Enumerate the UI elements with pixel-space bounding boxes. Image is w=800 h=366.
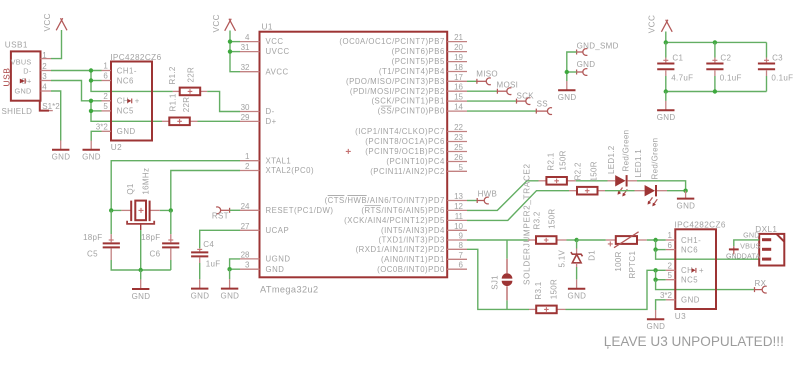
svg-text:(PCINT6)PB6: (PCINT6)PB6 — [392, 47, 445, 56]
svg-text:GND: GND — [681, 296, 700, 305]
svg-text:22R: 22R — [187, 67, 196, 83]
svg-text:USB1: USB1 — [5, 41, 28, 50]
wire GND_SMD tie — [567, 52, 577, 81]
svg-text:2: 2 — [42, 62, 47, 71]
capacitor C6 18pF — [141, 233, 179, 260]
svg-text:C2: C2 — [720, 54, 731, 63]
svg-text:2: 2 — [245, 162, 250, 171]
wire USB GND — [51, 91, 61, 141]
svg-text:18: 18 — [454, 63, 463, 72]
wire pin2-pin5 tie — [655, 270, 657, 279]
svg-text:150R: 150R — [559, 150, 568, 170]
ground GND (D1) — [568, 279, 587, 300]
svg-text:S1*2: S1*2 — [42, 102, 60, 111]
svg-text:Red/Green: Red/Green — [651, 138, 660, 180]
svg-text:D1: D1 — [587, 250, 596, 261]
svg-text:32: 32 — [241, 63, 250, 72]
svg-text:XTAL1: XTAL1 — [266, 156, 292, 165]
svg-text:3*2: 3*2 — [660, 291, 673, 300]
svg-text:(PCINT9/OC1B)PC5: (PCINT9/OC1B)PC5 — [365, 147, 445, 156]
svg-text:R3.2: R3.2 — [533, 211, 542, 229]
wire C6 branch — [170, 210, 172, 234]
junction D- pin1 — [89, 68, 93, 72]
svg-text:C4: C4 — [203, 240, 214, 249]
net stub RX — [755, 279, 767, 293]
resistor R2.1 150R — [539, 150, 576, 184]
junction LED gnd — [683, 189, 687, 193]
svg-text:+: + — [135, 97, 140, 106]
svg-text:GND: GND — [677, 202, 696, 211]
net stub GND_SMD — [577, 41, 619, 55]
wire PD5 to R2.2 — [467, 191, 569, 221]
junction UGND gnd — [227, 267, 231, 271]
svg-text:13: 13 — [454, 192, 463, 201]
svg-text:GND: GND — [647, 322, 666, 331]
ground GND (gnd_smd) — [558, 81, 577, 102]
svg-text:18pF: 18pF — [141, 233, 160, 242]
wire crystal right — [160, 201, 171, 211]
svg-text:4.7uF: 4.7uF — [671, 74, 693, 83]
wire C5 to gnd bus — [111, 260, 171, 270]
svg-text:CH1-: CH1- — [681, 236, 701, 245]
svg-text:Q1: Q1 — [126, 183, 135, 195]
wire D- (USB to U2 pin1 and R1.2) — [51, 70, 102, 72]
svg-text:(SS/PCINT0)PB0: (SS/PCINT0)PB0 — [378, 107, 445, 116]
svg-text:20: 20 — [454, 43, 463, 52]
wire PD2 to R3.1 — [467, 249, 529, 309]
svg-text:SOLDERJUMPER2_TRACE2: SOLDERJUMPER2_TRACE2 — [522, 163, 531, 285]
wire DATA across U3 to DXL1 — [656, 250, 760, 260]
svg-text:16MHz: 16MHz — [141, 168, 150, 195]
svg-text:U3: U3 — [675, 312, 686, 321]
svg-text:LED1.2: LED1.2 — [607, 145, 616, 174]
svg-text:21: 21 — [454, 33, 463, 42]
wire LED1.1 to gnd — [667, 190, 686, 192]
wire DXL1 gnd — [734, 240, 759, 246]
junction C1 bottom — [664, 89, 668, 93]
svg-text:CH: CH — [681, 266, 693, 275]
ground GND (LEDs) — [677, 191, 696, 211]
junction crystal right — [169, 208, 173, 212]
svg-text:5.1V: 5.1V — [558, 249, 567, 267]
svg-text:(PDO/MISO/PCINT3)PB3: (PDO/MISO/PCINT3)PB3 — [346, 77, 445, 86]
junction D+ pin2 — [89, 99, 93, 103]
junction U3 pin2 — [653, 268, 657, 272]
wire D1 branch — [576, 240, 578, 249]
junction D+ pin5 — [89, 109, 93, 113]
svg-text:14: 14 — [454, 103, 463, 112]
svg-text:(XCK/AIN4/PCINT12)PD5: (XCK/AIN4/PCINT12)PD5 — [344, 216, 445, 225]
svg-text:CH: CH — [117, 97, 129, 106]
svg-text:RESET(PC1/DW): RESET(PC1/DW) — [266, 206, 334, 215]
svg-text:GND: GND — [743, 231, 760, 240]
LED LED1.1 Red/Green — [634, 138, 667, 207]
svg-text:GND: GND — [191, 292, 210, 301]
wire R2.1 to LED1.2 — [576, 180, 608, 182]
svg-text:RPTC1: RPTC1 — [628, 251, 637, 279]
svg-text:(RTS/INT6/AIN5)PD6: (RTS/INT6/AIN5)PD6 — [361, 206, 444, 215]
svg-text:(PDI/MOSI/PCINT2)PB2: (PDI/MOSI/PCINT2)PB2 — [350, 87, 445, 96]
wire RX across U3 — [656, 280, 755, 290]
svg-text:VCC: VCC — [266, 37, 284, 46]
junction gnd tie — [565, 70, 569, 74]
svg-text:6: 6 — [668, 241, 673, 250]
solder jumper SJ1 — [490, 240, 512, 309]
PTC resistor RPTC1 100R — [606, 232, 647, 279]
connector USB1 — [2, 41, 61, 117]
svg-text:C6: C6 — [150, 250, 161, 259]
svg-text:4: 4 — [42, 83, 47, 92]
svg-text:VCC: VCC — [648, 15, 657, 34]
wire D1 to gnd — [576, 267, 578, 279]
ground GND (crystal) — [132, 280, 151, 301]
svg-text:100R: 100R — [614, 251, 623, 271]
svg-text:Red/Green: Red/Green — [621, 130, 630, 172]
svg-text:(PCINT8/OC1A)PC6: (PCINT8/OC1A)PC6 — [365, 137, 445, 146]
svg-text:10: 10 — [454, 222, 463, 231]
svg-text:XTAL2(PC0): XTAL2(PC0) — [266, 166, 315, 175]
svg-text:22R: 22R — [182, 97, 191, 113]
supply VCC (caps) — [648, 15, 673, 34]
wire UCAP to C4 — [200, 230, 240, 248]
svg-text:27: 27 — [241, 222, 250, 231]
svg-text:DATA: DATA — [742, 251, 761, 260]
svg-text:GND: GND — [15, 86, 32, 95]
ground GND (DXL1) — [726, 246, 742, 260]
svg-text:(TXD1/INT3)PD3: (TXD1/INT3)PD3 — [378, 236, 444, 245]
svg-text:17: 17 — [454, 73, 463, 82]
svg-text:C3: C3 — [772, 54, 783, 63]
svg-text:SCK: SCK — [517, 91, 535, 100]
svg-text:UGND: UGND — [266, 255, 291, 264]
svg-text:U1: U1 — [262, 23, 273, 32]
junction crystal left — [109, 208, 113, 212]
wire gnd bus down — [140, 270, 142, 280]
wire R3.1 to U3 pin2/5 — [566, 270, 666, 309]
svg-text:0.1uF: 0.1uF — [771, 74, 793, 83]
wire PD3 to R3.2 — [467, 239, 528, 241]
wire RPTC1 to U3 pin1 — [647, 239, 666, 241]
svg-text:HWB: HWB — [478, 190, 498, 199]
svg-text:GND: GND — [577, 60, 596, 69]
connector DXL1 — [740, 225, 784, 266]
svg-text:22: 22 — [454, 123, 463, 132]
svg-text:SJ1: SJ1 — [490, 275, 499, 290]
svg-text:GND: GND — [82, 153, 101, 162]
ground GND (U2) — [82, 140, 101, 161]
svg-text:ĻEAVE U3 UNPOPULATED!!!: ĻEAVE U3 UNPOPULATED!!! — [604, 334, 784, 349]
wire to gnd — [229, 269, 231, 279]
svg-text:D-: D- — [266, 107, 275, 116]
junction C1 top — [664, 40, 668, 44]
svg-text:(PCINT10)PC4: (PCINT10)PC4 — [386, 157, 445, 166]
junction D- pin6 — [89, 78, 93, 82]
svg-text:9: 9 — [459, 232, 464, 241]
capacitor C4 1uF — [191, 240, 220, 269]
junction U3 pin5 — [653, 278, 657, 282]
svg-text:NC6: NC6 — [117, 76, 134, 85]
wire C4 to gnd — [199, 263, 201, 279]
svg-text:24: 24 — [241, 202, 250, 211]
wire R3.2 to D1 junction — [567, 239, 577, 241]
junction VCC pin4 — [228, 39, 232, 43]
svg-text:RST: RST — [212, 211, 229, 220]
svg-text:GND: GND — [568, 292, 587, 301]
svg-text:29: 29 — [241, 113, 250, 122]
svg-text:GND: GND — [266, 265, 285, 274]
svg-text:1: 1 — [245, 152, 250, 161]
net stub MISO — [476, 69, 498, 84]
ground GND (USB) — [52, 140, 71, 161]
svg-text:UVCC: UVCC — [266, 47, 290, 56]
net stub RST — [212, 207, 230, 221]
svg-text:MOSI: MOSI — [497, 80, 519, 89]
svg-text:GND: GND — [657, 113, 676, 122]
wire pin1-pin6 tie — [655, 240, 657, 250]
svg-text:C1: C1 — [672, 54, 683, 63]
wire R1.1 to U1 D+ — [198, 120, 241, 122]
svg-text:0.1uF: 0.1uF — [720, 74, 742, 83]
svg-text:150R: 150R — [548, 209, 557, 229]
capacitor C3 0.1uF — [758, 42, 793, 91]
svg-text:(PCINT5)PB5: (PCINT5)PB5 — [392, 57, 445, 66]
svg-text:(AIN0/INT1)PD1: (AIN0/INT1)PD1 — [381, 255, 445, 264]
svg-text:VBUS: VBUS — [11, 58, 32, 67]
wire SS — [467, 110, 536, 112]
wire to RPTC1 — [577, 239, 606, 241]
wire XTAL1 — [111, 161, 240, 201]
ESD suppressor U2 IPC4282CZ6 — [96, 53, 162, 152]
svg-text:3: 3 — [42, 72, 47, 81]
svg-text:5: 5 — [459, 163, 464, 172]
svg-text:2: 2 — [668, 262, 673, 271]
svg-text:1: 1 — [668, 231, 673, 240]
svg-text:1uF: 1uF — [206, 260, 221, 269]
svg-text:5: 5 — [103, 102, 108, 111]
svg-text:RX: RX — [755, 279, 767, 288]
svg-text:SS: SS — [537, 100, 548, 109]
svg-text:15: 15 — [454, 93, 463, 102]
U1 left pins — [240, 33, 334, 274]
svg-text:GND_SMD: GND_SMD — [577, 41, 619, 50]
svg-text:LED1.1: LED1.1 — [634, 149, 643, 178]
svg-text:GND: GND — [558, 93, 577, 102]
ground GND (C4) — [191, 279, 210, 300]
wire VCC to U1 VCC/UVCC/AVCC — [230, 31, 240, 72]
svg-text:150R: 150R — [549, 279, 558, 299]
svg-text:30: 30 — [241, 103, 250, 112]
svg-text:SHIELD: SHIELD — [2, 107, 33, 116]
svg-text:R3.1: R3.1 — [534, 281, 543, 299]
svg-text:150R: 150R — [589, 161, 598, 181]
svg-text:5: 5 — [668, 271, 673, 280]
svg-text:4: 4 — [245, 33, 250, 42]
svg-text:R2.1: R2.1 — [547, 152, 556, 170]
svg-text:+: + — [699, 266, 704, 275]
junction UVCC pin31 — [228, 49, 232, 53]
svg-text:12: 12 — [454, 202, 463, 211]
svg-text:C5: C5 — [87, 250, 98, 259]
svg-text:ATmega32u2: ATmega32u2 — [260, 284, 318, 294]
svg-text:GND: GND — [221, 292, 240, 301]
svg-text:VBUS: VBUS — [740, 242, 760, 251]
svg-text:6: 6 — [459, 261, 464, 270]
wire PD6 to R2.1 — [467, 181, 539, 211]
wire VCC to cap bus — [666, 32, 767, 43]
wire cap bottom bus — [666, 91, 767, 93]
wire MOSI — [467, 90, 497, 92]
resistor R3.2 150R — [528, 209, 567, 244]
svg-text:R2.2: R2.2 — [573, 162, 582, 180]
crystal Q1 16MHz — [121, 168, 159, 230]
LED LED1.2 Red/Green — [607, 130, 637, 197]
svg-text:AVCC: AVCC — [266, 67, 289, 76]
svg-text:1: 1 — [42, 51, 47, 60]
net stub MOSI — [497, 80, 519, 94]
wire VBUS to VCC — [51, 30, 62, 59]
U1 right pins — [325, 33, 467, 274]
capacitor C1 4.7uF — [657, 42, 693, 91]
zener diode D1 5.1V — [558, 249, 597, 268]
svg-text:8: 8 — [459, 241, 464, 250]
svg-text:D-: D- — [23, 66, 32, 75]
svg-text:3*2: 3*2 — [96, 123, 109, 132]
junction C2 bottom — [713, 89, 717, 93]
svg-text:31: 31 — [241, 43, 250, 52]
svg-text:19: 19 — [454, 53, 463, 62]
svg-text:R1.2: R1.2 — [168, 66, 177, 84]
svg-text:(OC0B/INT0)PD0: (OC0B/INT0)PD0 — [377, 265, 445, 274]
net stub SS — [536, 100, 552, 115]
svg-text:GND: GND — [726, 253, 742, 260]
wire U2 GND pin — [91, 131, 101, 140]
wire XTAL2 — [171, 171, 240, 201]
ESD suppressor U3 IPC4282CZ6 — [660, 221, 726, 321]
resistor R1.2 22R — [168, 66, 207, 95]
wire U3 gnd — [656, 300, 666, 310]
svg-text:NC5: NC5 — [117, 107, 134, 116]
wire crystal left — [111, 201, 121, 211]
wire crystal to gnd bus — [140, 230, 142, 270]
capacitor C5 18pF — [83, 233, 120, 260]
svg-text:CH1-: CH1- — [117, 66, 137, 75]
svg-text:7: 7 — [459, 251, 464, 260]
svg-text:3: 3 — [245, 261, 250, 270]
svg-text:IPC4282CZ6: IPC4282CZ6 — [675, 221, 726, 230]
net stub HWB — [477, 190, 497, 204]
IC U1 ATmega32u2 body — [260, 23, 448, 295]
svg-text:(RXD1/AIN1/INT2)PD2: (RXD1/AIN1/INT2)PD2 — [356, 245, 445, 254]
svg-text:6: 6 — [103, 72, 108, 81]
svg-text:25: 25 — [454, 143, 463, 152]
resistor R1.1 22R — [162, 93, 198, 125]
wire UGND/GND pins — [230, 259, 240, 269]
wire to gnd — [665, 92, 667, 101]
wire R2.2 to LED1.1 — [605, 190, 635, 192]
svg-text:D+: D+ — [266, 117, 277, 126]
wire R1.2 to U1 D- — [207, 91, 240, 111]
svg-text:(CTS/HWB/AIN6/TO/INT7)PD7: (CTS/HWB/AIN6/TO/INT7)PD7 — [325, 196, 445, 205]
pin SHIELD S1*2 — [40, 101, 49, 111]
wire SCK — [467, 100, 517, 102]
svg-text:16: 16 — [454, 83, 463, 92]
wire C6 to gnd bus — [170, 260, 172, 270]
svg-text:GND: GND — [117, 127, 136, 136]
svg-text:(PCIN11/AIN2)PC2: (PCIN11/AIN2)PC2 — [370, 167, 445, 176]
junction C2 top — [713, 40, 717, 44]
junction xtal gnd bus — [139, 268, 143, 272]
svg-text:UCAP: UCAP — [266, 226, 290, 235]
svg-text:11: 11 — [455, 212, 464, 221]
svg-text:VCC: VCC — [43, 13, 52, 32]
svg-text:23: 23 — [454, 133, 463, 142]
supply VCC (U1 top) — [212, 14, 236, 33]
svg-text:NC6: NC6 — [681, 245, 698, 254]
svg-text:U2: U2 — [111, 143, 122, 152]
ground GND (caps) — [657, 101, 676, 122]
wire RST to RESET pin — [230, 209, 240, 211]
svg-text:(INT5/AIN3)PD4: (INT5/AIN3)PD4 — [381, 226, 445, 235]
svg-text:VCC: VCC — [212, 14, 221, 33]
svg-text:(ICP1/INT4/CLKO)PC7: (ICP1/INT4/CLKO)PC7 — [355, 127, 445, 136]
ground GND (UGND) — [221, 279, 240, 300]
svg-text:MISO: MISO — [476, 69, 498, 78]
svg-text:1: 1 — [103, 62, 108, 71]
junction U3 pin6 — [653, 247, 657, 251]
svg-text:USB: USB — [2, 68, 12, 87]
junction U3 pin1 — [653, 238, 657, 242]
svg-text:GND: GND — [132, 292, 151, 301]
svg-text:26: 26 — [454, 153, 463, 162]
wire C5 branch — [110, 210, 112, 234]
ground GND (U3) — [647, 310, 666, 331]
wire HWB — [467, 200, 477, 202]
capacitor C2 0.1uF — [706, 42, 741, 91]
net stub SCK — [517, 91, 535, 104]
svg-text:NC5: NC5 — [681, 276, 698, 285]
svg-text:18pF: 18pF — [83, 233, 102, 242]
wire LED1.2 to gnd corner — [637, 181, 686, 191]
svg-text:R1.1: R1.1 — [169, 93, 178, 111]
svg-text:28: 28 — [241, 250, 250, 259]
svg-text:2: 2 — [103, 92, 108, 101]
svg-text:GND: GND — [52, 153, 71, 162]
resistor R2.2 150R — [569, 161, 605, 194]
junction D1 — [574, 238, 578, 242]
svg-text:(SCK/PCINT1)PB1: (SCK/PCINT1)PB1 — [371, 97, 444, 106]
wire D+ (USB to U2 pin2/5 and R1.1) — [51, 81, 102, 101]
supply VCC (top left, USB) — [43, 13, 67, 32]
svg-text:(OC0A/OC1C/PCINT7)PB7: (OC0A/OC1C/PCINT7)PB7 — [339, 37, 444, 46]
wire MISO — [467, 80, 477, 82]
resistor R3.1 150R — [529, 279, 566, 313]
net stub GND — [577, 60, 596, 76]
svg-text:(T1/PCINT4)PB4: (T1/PCINT4)PB4 — [379, 67, 445, 76]
